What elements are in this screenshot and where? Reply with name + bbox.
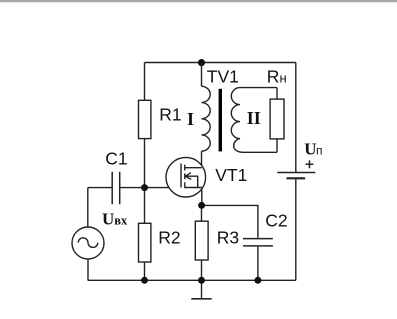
junction dot node A (gate divider) [141, 184, 148, 191]
resistor R1 [139, 100, 151, 138]
resistor R3 [195, 221, 208, 260]
mosfet VT1 substrate lead with step to source [186, 176, 198, 187]
svg-text:U: U [304, 140, 316, 159]
source Uvx circle [72, 227, 104, 259]
svg-text:VT1: VT1 [215, 165, 247, 185]
mosfet VT1 substrate arrow barbs [185, 173, 191, 180]
wire Rn top lead [276, 88, 278, 100]
svg-text:Uвх: Uвх [102, 209, 128, 228]
capacitor C2 top plate [243, 238, 273, 240]
wire node S to R3 top [201, 205, 203, 221]
capacitor C1 right plate [119, 172, 121, 205]
capacitor C1 left plate [111, 172, 113, 205]
wire source down to node S [201, 188, 203, 206]
svg-text:R2: R2 [158, 228, 180, 248]
resistor Rn [270, 99, 284, 139]
mosfet VT1 channel dashes [184, 165, 186, 189]
junction dot C2 bottom [254, 277, 261, 284]
mosfet VT1 gate electrode [180, 164, 182, 188]
wire right side (top to battery) [295, 63, 297, 173]
battery Up long plate [277, 172, 315, 174]
wire top horizontal [145, 62, 296, 64]
wire R2 bottom lead [144, 262, 146, 280]
transformer TV1 primary top lead [201, 63, 203, 87]
wire left branch down to source [87, 188, 89, 227]
mosfet VT1 drain lead [185, 167, 202, 169]
wire bottom horizontal [88, 279, 296, 281]
battery Up short plate [286, 177, 305, 179]
wire primary bottom to drain [201, 151, 203, 168]
junction dot ground node [198, 277, 205, 284]
wire R1 top lead [144, 63, 146, 101]
wire source bottom lead [88, 259, 90, 280]
wire R3 bottom lead [201, 260, 203, 280]
wire node A to R2 top [144, 188, 146, 224]
wire node S to C2 branch [202, 205, 258, 237]
transformer TV1 primary winding I [202, 86, 211, 151]
wire right side (battery to bottom) [295, 179, 297, 280]
wire Rn bottom lead [276, 139, 278, 152]
svg-text:TV1: TV1 [207, 66, 239, 86]
ground bar [191, 298, 211, 300]
junction dot node S (source) [198, 202, 205, 209]
svg-text:II: II [247, 108, 261, 128]
source sine wave [78, 238, 98, 248]
junction dot R2 bottom [141, 277, 148, 284]
svg-text:R3: R3 [217, 228, 239, 248]
transformer TV1 secondary winding II [231, 88, 277, 153]
svg-text:C2: C2 [265, 210, 287, 230]
svg-text:R1: R1 [159, 105, 181, 125]
mosfet VT1 circle [166, 157, 206, 197]
capacitor C2 bottom plate [243, 245, 273, 247]
junction dot top (primary tap) [198, 59, 205, 66]
wire C2 bottom lead [257, 247, 259, 281]
svg-text:п: п [316, 143, 323, 157]
wire C1 right plate to node A to gate [120, 187, 181, 189]
svg-text:I: I [187, 109, 194, 129]
ground stub [201, 280, 203, 298]
svg-text:Rн: Rн [267, 66, 287, 86]
transformer core [219, 89, 222, 152]
svg-text:C1: C1 [105, 148, 127, 168]
battery plus sign [306, 160, 314, 168]
wire input left segment (corner to C1 left plate) [88, 187, 112, 189]
wire R1 bottom to node A [144, 139, 146, 188]
mosfet VT1 source lead [185, 187, 202, 189]
resistor R2 [139, 223, 151, 262]
